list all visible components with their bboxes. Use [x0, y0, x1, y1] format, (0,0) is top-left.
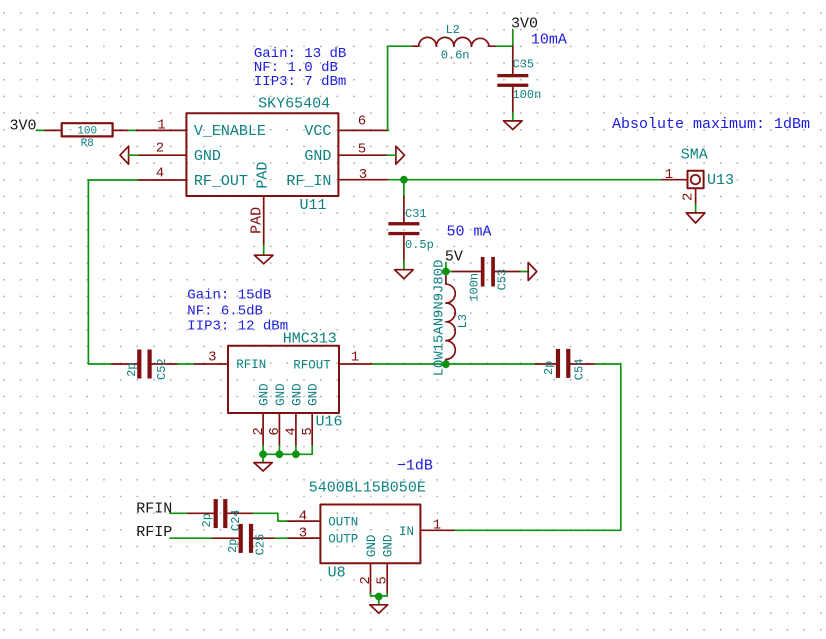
pin 2 U13: [695, 188, 697, 204]
svg-text:2: 2: [681, 193, 697, 201]
svg-text:C35: C35: [513, 57, 535, 71]
svg-text:C31: C31: [405, 207, 427, 221]
note gain block HMC: [187, 288, 288, 335]
capacitor C35: [497, 46, 541, 113]
pin 2 U11: [138, 154, 187, 156]
svg-text:U8: U8: [328, 565, 346, 582]
capacitor C53: [453, 257, 521, 302]
svg-text:3V0: 3V0: [511, 16, 538, 33]
wire U16 pin1 to junction: [372, 363, 446, 365]
wire pin3 to SMA: [388, 179, 662, 181]
svg-text:C52: C52: [155, 358, 169, 380]
svg-text:LQW15AN9N9J80D: LQW15AN9N9J80D: [431, 260, 447, 377]
pin PAD U11: [263, 196, 265, 246]
junction U16 gnd b: [276, 450, 284, 458]
pin 5 U11: [338, 154, 387, 156]
svg-text:L2: L2: [446, 23, 460, 37]
svg-text:5: 5: [358, 142, 366, 158]
svg-text:RFIN: RFIN: [236, 358, 266, 372]
connector U13 SMA: [681, 147, 734, 189]
svg-text:4: 4: [284, 427, 300, 435]
ground arrow at pin 2: [120, 146, 129, 164]
ground arrow after C53: [528, 263, 537, 281]
pin 6 U11: [338, 129, 388, 131]
junction node RF_IN: [400, 176, 408, 184]
pin 5 U16: [311, 413, 313, 446]
pin 1 U8: [420, 529, 453, 531]
ground under U16: [254, 463, 272, 471]
svg-text:L3: L3: [456, 314, 470, 328]
svg-text:U11: U11: [300, 197, 327, 214]
svg-text:IN: IN: [399, 525, 414, 539]
svg-text:RFIN: RFIN: [136, 500, 172, 517]
wire 5V stub: [445, 263, 447, 272]
svg-text:R8: R8: [81, 138, 94, 150]
wire U13 pin2 to ground: [695, 204, 697, 213]
pin 1 U13: [662, 179, 688, 181]
pin 3 U11: [338, 179, 388, 181]
wire L2 to 3V0: [496, 45, 513, 47]
svg-text:2: 2: [156, 141, 164, 157]
pin 2 U8: [370, 563, 372, 593]
capacitor C54: [536, 349, 596, 380]
junction U16 gnd a: [259, 450, 267, 458]
svg-text:0.6n: 0.6n: [441, 49, 470, 63]
svg-text:IIP3: 12 dBm: IIP3: 12 dBm: [187, 318, 288, 334]
wire junction to C54: [446, 363, 536, 365]
pin 6 U16: [278, 413, 280, 446]
capacitor C3L shunt: [388, 180, 433, 261]
svg-text:2p: 2p: [226, 539, 240, 553]
inductor L3: [431, 260, 470, 377]
svg-text:SMA: SMA: [681, 147, 708, 164]
ground under U8: [370, 605, 388, 613]
svg-text:0.5p: 0.5p: [405, 238, 434, 252]
pin 1 U16: [339, 363, 372, 365]
svg-text:1: 1: [157, 117, 165, 133]
resistor R8: [45, 123, 128, 150]
ground under PAD: [254, 255, 273, 264]
junction 5V: [442, 268, 450, 276]
svg-text:3V0: 3V0: [10, 117, 37, 134]
ground under U13: [686, 213, 705, 223]
svg-text:RF_OUT: RF_OUT: [194, 173, 248, 190]
pin 4 U8: [287, 520, 320, 522]
svg-text:4: 4: [299, 509, 307, 525]
wire U16 gnd bus: [263, 446, 312, 455]
svg-text:2p: 2p: [542, 361, 556, 375]
svg-text:C25: C25: [254, 534, 268, 556]
svg-text:HMC313: HMC313: [283, 331, 337, 348]
junction U16 gnd c: [292, 450, 300, 458]
svg-text:PAD: PAD: [249, 207, 266, 234]
wire pin4 down to C52: [88, 180, 137, 364]
svg-text:GND: GND: [274, 383, 288, 406]
svg-text:−1dB: −1dB: [397, 458, 433, 475]
svg-text:RFIP: RFIP: [136, 524, 172, 541]
svg-text:3: 3: [359, 167, 367, 183]
svg-text:2p: 2p: [125, 362, 139, 376]
svg-text:RF_IN: RF_IN: [286, 173, 331, 190]
svg-text:OUTP: OUTP: [328, 533, 358, 547]
capacitor C52: [112, 350, 178, 381]
svg-text:GND: GND: [290, 383, 304, 406]
svg-text:100: 100: [77, 126, 97, 138]
wire U16 gnd stub: [262, 454, 264, 462]
svg-text:VCC: VCC: [304, 123, 331, 140]
wire RFIN to C24: [170, 512, 188, 514]
wire C3L to ground: [403, 261, 405, 270]
svg-text:1: 1: [351, 350, 359, 366]
svg-text:GND: GND: [304, 148, 331, 165]
ground arrow at pin 5: [396, 146, 405, 164]
svg-text:SKY65404: SKY65404: [258, 95, 330, 112]
wire C35 to ground: [512, 113, 514, 121]
pin 1 U11: [136, 129, 186, 131]
wire R8 to pin1: [129, 129, 137, 131]
svg-text:100n: 100n: [468, 273, 482, 302]
svg-text:1: 1: [433, 518, 441, 534]
wire RFIP to C25: [170, 537, 212, 539]
svg-text:5400BL15B050E: 5400BL15B050E: [309, 480, 426, 497]
svg-text:3: 3: [299, 526, 307, 542]
wire 3V0 label stub: [512, 30, 514, 47]
note gain block U11: [254, 46, 346, 90]
op-amp U11 SKY65404 body: [186, 95, 338, 214]
svg-text:10mA: 10mA: [531, 32, 567, 49]
wire pin6 up to L2: [388, 46, 413, 130]
capacitor C25: [212, 524, 275, 556]
inductor L2: [413, 23, 496, 62]
svg-text:GND: GND: [307, 383, 321, 406]
svg-text:2p: 2p: [200, 513, 214, 527]
wire PAD to ground: [263, 246, 265, 256]
pin 4 U11: [138, 179, 187, 181]
svg-text:3: 3: [208, 350, 216, 366]
junction U8 gnd: [375, 593, 383, 601]
svg-text:RFOUT: RFOUT: [293, 358, 331, 372]
wire C24 to U8 pin4: [254, 513, 288, 521]
svg-text:U13: U13: [707, 172, 734, 189]
svg-text:V_ENABLE: V_ENABLE: [194, 123, 266, 140]
svg-text:GND: GND: [382, 535, 396, 558]
svg-text:C53: C53: [496, 269, 510, 291]
pin 2 U16: [262, 413, 264, 446]
junction L3 bottom: [442, 360, 450, 368]
wire C53 to arrow: [520, 271, 528, 273]
svg-text:Gain: 15dB: Gain: 15dB: [187, 288, 271, 304]
svg-text:C54: C54: [572, 359, 586, 381]
capacitor C24: [188, 499, 253, 531]
wire C52 to HMC pin3: [178, 363, 195, 365]
wire U8 gnd bus: [371, 594, 388, 605]
svg-text:2: 2: [251, 427, 267, 435]
svg-text:GND: GND: [194, 148, 221, 165]
svg-text:5: 5: [300, 427, 316, 435]
svg-text:1: 1: [665, 167, 673, 183]
wire C54 to U8 pin1: [454, 364, 621, 530]
svg-text:NF: 6.5dB: NF: 6.5dB: [187, 303, 263, 319]
op-amp U16 HMC313 body: [228, 331, 343, 431]
svg-text:6: 6: [267, 427, 283, 435]
wire pin5 to arrow: [387, 154, 396, 156]
svg-text:100n: 100n: [513, 88, 542, 102]
wire arrow to pin2: [129, 154, 138, 156]
svg-text:PAD: PAD: [255, 162, 272, 189]
svg-text:50 mA: 50 mA: [447, 223, 492, 240]
pin 3 U8: [287, 537, 320, 539]
pin 5 U8: [386, 563, 388, 593]
pin 4 U16: [295, 413, 297, 446]
svg-text:4: 4: [156, 165, 164, 181]
svg-text:GND: GND: [365, 535, 379, 558]
svg-text:OUTN: OUTN: [328, 515, 358, 529]
wire C25 to U8 pin3: [275, 537, 287, 539]
wire 5V to C53: [446, 271, 453, 273]
svg-text:5: 5: [375, 576, 391, 584]
ground under C3L: [395, 270, 414, 279]
svg-text:5V: 5V: [445, 249, 463, 266]
balun U8 5400BL15B050E body: [309, 480, 426, 582]
ground under C35: [504, 121, 523, 130]
pin 3 U16: [195, 363, 228, 365]
wire 3V0 to R8: [36, 129, 45, 131]
svg-text:6: 6: [358, 114, 366, 130]
svg-text:Absolute maximum: 1dBm: Absolute maximum: 1dBm: [612, 116, 810, 133]
svg-text:U16: U16: [316, 413, 343, 430]
svg-text:2: 2: [358, 576, 374, 584]
svg-text:GND: GND: [258, 383, 272, 406]
svg-text:IIP3: 7 dBm: IIP3: 7 dBm: [254, 74, 346, 90]
